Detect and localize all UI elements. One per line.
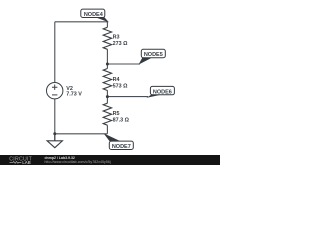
svg-text:NODE4: NODE4 <box>84 12 104 18</box>
svg-text:87.3 Ω: 87.3 Ω <box>113 117 130 123</box>
svg-text:7.73 V: 7.73 V <box>66 92 82 98</box>
node flag NODE5 <box>139 49 166 64</box>
watermark bar <box>0 155 220 165</box>
node flag NODE7 <box>104 133 134 150</box>
svg-text:273 Ω: 273 Ω <box>113 41 128 47</box>
label R5 name and value 87.3 ohm <box>113 111 130 123</box>
label R4 name and value 573 ohm <box>113 77 128 89</box>
junction node C (bottom, ground tap) <box>53 132 56 135</box>
resistor R3 <box>103 27 111 49</box>
node flag NODE4 <box>81 9 109 22</box>
svg-text:573 Ω: 573 Ω <box>113 83 128 89</box>
wire stub NODE6 <box>107 96 148 98</box>
resistor R4 <box>103 69 111 91</box>
wire top horizontal <box>55 21 108 23</box>
logo CircuitLab <box>9 156 32 165</box>
junction node B (R4/R5, NODE6 tap) <box>106 95 109 98</box>
svg-text:R3: R3 <box>113 35 120 41</box>
wire left vertical (V2 branch) <box>54 22 56 141</box>
voltage source V2 <box>47 83 63 99</box>
wire bottom horizontal <box>55 133 108 135</box>
ground <box>47 134 62 148</box>
resistor R5 <box>103 103 111 125</box>
svg-text:NODE6: NODE6 <box>153 89 172 95</box>
wire right vertical chain <box>106 22 108 134</box>
svg-text:NODE7: NODE7 <box>112 144 131 150</box>
svg-text:NODE5: NODE5 <box>144 52 163 58</box>
svg-text:R4: R4 <box>113 77 120 83</box>
label V2 name and value 7.73 V <box>66 86 82 98</box>
node flag NODE6 <box>146 86 174 98</box>
wire stub NODE5 <box>107 63 140 65</box>
label R3 name and value 273 ohm <box>113 35 128 47</box>
junction node A (R3/R4, NODE5 tap) <box>106 63 109 66</box>
svg-text:htto://www.circuitlab.com/c/5y: htto://www.circuitlab.com/c/5y782x45y56j <box>45 160 111 164</box>
svg-text:LAB: LAB <box>22 160 31 165</box>
svg-text:R5: R5 <box>113 111 120 117</box>
